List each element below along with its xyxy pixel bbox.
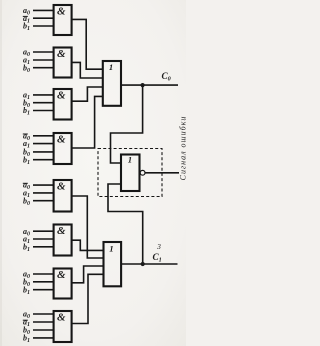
wire G4 input 2 [33, 143, 54, 145]
wire G1 input 1 [33, 9, 54, 11]
svg-text:&: & [57, 6, 66, 18]
wire G6 input 1 [33, 230, 54, 232]
AND gate G7 box [54, 269, 72, 299]
svg-text:&: & [57, 312, 66, 324]
wire G3 input 3 [33, 110, 54, 112]
wire G7 input 1 [33, 273, 54, 275]
wire U3 output (error signal) [145, 172, 179, 174]
node C1 junction [141, 262, 145, 266]
wire G2 input 2 [33, 59, 54, 61]
wire C0 to error gate input1 [111, 85, 143, 163]
node C0 junction [141, 83, 145, 87]
OR gate U3 (error) box [121, 155, 140, 192]
svg-text:1: 1 [109, 243, 113, 253]
wire G2 input 3 [33, 67, 54, 69]
wire G3 input 1 [33, 94, 54, 96]
svg-text:Сигнал ошибки: Сигнал ошибки [179, 116, 186, 181]
wire U2 output C1 [121, 263, 177, 265]
wire G6 input 3 [33, 246, 54, 248]
AND gate G8 box [54, 311, 72, 342]
wire U1 output C0 [121, 84, 178, 86]
wire G2 input 1 [33, 51, 54, 53]
wire G5 output to OR2 input2 [72, 196, 104, 258]
dashed box around error gate [98, 149, 162, 197]
svg-text:&: & [57, 48, 66, 60]
wire G5 input 3 [33, 200, 54, 202]
AND gate G3 box [54, 89, 72, 120]
wire C1 to error gate input2 [108, 184, 143, 264]
wire G8 output to OR2 input4 [72, 274, 104, 323]
svg-text:1: 1 [109, 62, 113, 72]
wire G4 input 1 [33, 135, 54, 137]
wire G4 input 3 [33, 151, 54, 153]
wire G7 output to OR2 input3 [72, 266, 104, 283]
wire G1 input 3 [33, 25, 54, 27]
wire G4 output to OR1 input4 [72, 96, 103, 148]
svg-text:1: 1 [128, 155, 132, 165]
scan smudge bottom-left [23, 5, 188, 344]
wire G1 output to OR1 input1 [72, 19, 103, 69]
wire G4 input 4 [33, 159, 54, 161]
AND gate G4 box [54, 133, 72, 164]
wire G5 input 2 [33, 192, 54, 194]
svg-text:&: & [57, 269, 66, 281]
wire G5 input 1 [33, 184, 54, 186]
wire G8 input 1 [33, 313, 54, 315]
svg-text:&: & [57, 90, 66, 102]
svg-text:3: 3 [156, 242, 161, 251]
wire G7 input 3 [33, 289, 54, 291]
wire G8 input 4 [33, 337, 54, 339]
AND gate G6 box [54, 225, 72, 256]
AND gate G2 box [54, 48, 72, 78]
wire G8 input 2 [33, 321, 54, 323]
wire G3 output to OR1 input3 [72, 87, 103, 101]
wire G6 input 2 [33, 238, 54, 240]
svg-text:&: & [57, 134, 66, 146]
wire G7 input 2 [33, 281, 54, 283]
scan smudge left edge [0, 0, 2, 346]
AND gate G5 box [54, 180, 72, 212]
wire G8 input 3 [33, 329, 54, 331]
wire G2 output to OR1 input2 [72, 62, 103, 78]
svg-text:&: & [57, 225, 66, 237]
wire G1 input 2 [33, 17, 54, 19]
wire G3 input 2 [33, 102, 54, 104]
wire G6 output to OR2 input1 [72, 240, 104, 250]
OR gate U2 box [104, 242, 122, 286]
AND gate G1 box [54, 5, 72, 35]
inversion bubble U3 output [140, 170, 145, 175]
OR gate U1 box [103, 61, 121, 106]
svg-text:&: & [57, 181, 66, 193]
